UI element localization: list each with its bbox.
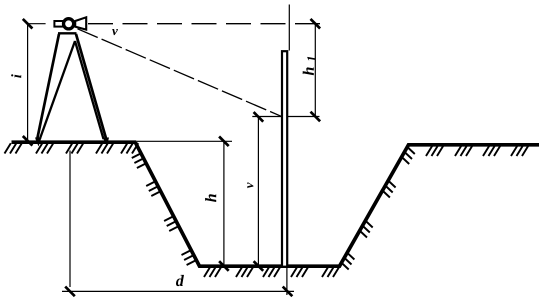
- label i: [11, 74, 21, 78]
- extension line at ground level for h: [137, 140, 232, 142]
- tripod right foot: [103, 138, 110, 147]
- label h: [205, 194, 216, 202]
- level instrument eyepiece: [54, 21, 63, 27]
- tick at bottom of i: [23, 136, 33, 146]
- tripod inner left leg: [40, 41, 75, 139]
- label d: [176, 275, 184, 286]
- hatching on right slope: [341, 147, 415, 270]
- tripod outer left leg: [37, 34, 59, 140]
- tick at bottom of h: [219, 261, 229, 271]
- inclined line of sight (dashed): [78, 29, 282, 117]
- horizontal line of sight (dashed): [88, 23, 323, 25]
- extension line below instrument: [69, 151, 71, 288]
- extension line at top of i: [28, 23, 46, 25]
- tripod top plate: [58, 32, 77, 34]
- dimension line d: [62, 290, 294, 292]
- level instrument telescope body (circle): [64, 19, 74, 29]
- tick at top of v: [254, 112, 264, 122]
- label v (rod reading): [247, 182, 253, 188]
- tick at bottom of h1: [311, 112, 321, 122]
- rod reading line: [252, 116, 319, 118]
- levelling rod: [282, 51, 287, 267]
- tripod left foot: [35, 138, 42, 147]
- hatching on left slope: [132, 153, 197, 265]
- tick at top of h: [219, 137, 229, 147]
- extension line below rod: [286, 268, 288, 295]
- dimension line h: [223, 141, 225, 266]
- hatching under right ground: [426, 146, 528, 156]
- dimension line i: [27, 24, 29, 142]
- hatching under left ground: [5, 143, 139, 153]
- label h1: [303, 67, 314, 75]
- tripod outer right leg: [76, 34, 107, 140]
- label v (inclined sight): [112, 29, 118, 35]
- dimension line v: [257, 117, 259, 266]
- tripod inner right leg: [75, 41, 104, 139]
- tick at top of h1: [311, 19, 321, 29]
- ground profile (left ground, trench slopes, floor, right ground): [12, 142, 539, 266]
- tick at top of i: [23, 19, 33, 29]
- tick at left of d: [65, 287, 75, 297]
- extension line above rod: [288, 5, 290, 51]
- tick at bottom of v: [254, 261, 264, 271]
- hatching under trench floor: [204, 267, 339, 277]
- dimension line h1: [314, 24, 316, 117]
- level instrument objective horn: [75, 17, 86, 29]
- tick at right of d: [283, 287, 293, 297]
